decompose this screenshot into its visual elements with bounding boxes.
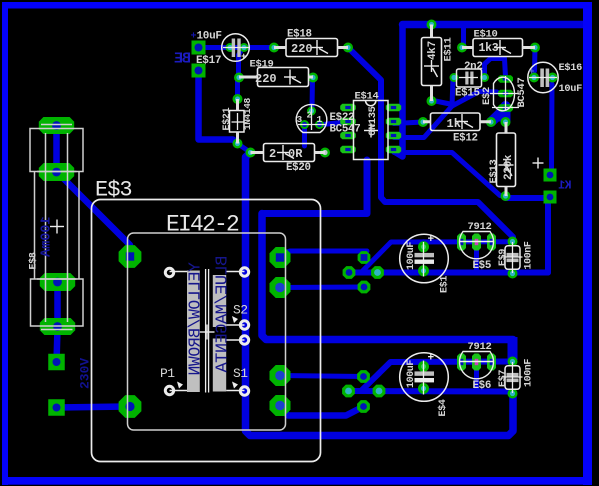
value 1k3 E$10 [479,42,499,55]
svg-text:BE: BE [174,51,191,68]
via pad B [343,266,356,279]
wire transformer pad1 rail into pad A [283,251,367,254]
capacitor E$4 pads [418,361,429,394]
relay pad K1-1 [544,169,557,182]
label E$12 [453,133,478,145]
resistor E$10 pads [457,43,540,53]
svg-text:E$4: E$4 [437,399,449,416]
via pad A [358,251,371,264]
wire E$15 right to E$2 top [485,59,506,78]
transformer inner outline [128,233,286,430]
label E$14 [355,90,379,102]
label E$5 [473,260,492,272]
label E$10 [474,28,498,40]
wire regulator rail into E$7 top [508,337,518,360]
wire E$21 to E$20 left pad [238,144,251,153]
label E$1 [439,276,451,293]
svg-text:0R: 0R [288,147,303,161]
value 100nF E$7 [524,359,535,387]
via pad C [371,266,384,279]
transformer pin S2b [240,336,248,344]
svg-text:E$2: E$2 [481,87,493,105]
svg-text:7912: 7912 [468,341,492,353]
svg-text:3: 3 [297,114,303,125]
transformer pad P1a [119,245,142,268]
resistor E$13 pads [501,117,511,201]
wire fuse bottom link [54,282,61,327]
via pad A2 [357,370,370,383]
resistor E$20 outline [251,144,326,162]
svg-text:P1: P1 [160,366,175,381]
wire left L-route down and across [262,214,513,340]
capacitor E$7 outline [503,362,523,393]
value 220 E$18 [291,42,313,56]
resistor E$12 pads [418,117,496,127]
wire fuse to mains terminal X1-1 [57,329,58,362]
wire transformer S to pad D [280,285,364,291]
value 220k E$13 [503,154,515,180]
transistor E$22 outline [296,104,327,132]
wire negative rail y272 [349,270,548,276]
transformer pin P2 [165,268,173,276]
wire E$2 bottom junction blob [491,106,506,122]
label BC547 E$2 [516,77,528,107]
wire transformer pad4 to pad D2 [280,406,364,416]
svg-text:1: 1 [317,114,323,125]
value 220 E$19 [255,72,277,86]
label E$20 [286,162,311,174]
svg-text:E$15: E$15 [455,88,480,100]
svg-text:E$8: E$8 [28,252,40,269]
capacitor E$9 pads [508,237,518,279]
wire fuse to transformer primary pad [57,172,130,257]
wire E$16 right down to K1 [549,84,555,169]
label E$2 [481,87,493,105]
wire top rail down to IC [396,25,403,157]
pad E$17 square 1 [192,41,206,55]
net label BE [174,51,191,68]
net label 230V [78,358,93,389]
svg-text:E$20: E$20 [286,162,311,174]
wire E$19 right to E$22 middle [310,78,316,109]
svg-text:100uF: 100uF [406,360,417,388]
svg-text:E$3: E$3 [95,178,132,203]
capacitor E$15 pads [450,73,490,82]
label E$6 [473,380,492,392]
transformer wire label 2 [214,256,233,374]
regulator E$5 pads [457,234,496,251]
capacitor E$15 outline [457,69,482,87]
resistor E$18 pads [269,43,353,53]
fuse holder E$8 pad 1 [39,117,74,134]
value 2n2 E$15 [464,61,483,73]
value 1N4148 E$21 [242,97,253,130]
label EI42-2 [166,212,239,238]
wire E$4 top pad stub [421,362,426,367]
wire top supply rail [403,21,589,29]
svg-text:1k3: 1k3 [479,42,499,55]
regulator E$5 outline [460,232,494,259]
wire diagonal to E$6 rail [361,362,513,392]
label E$13 [488,159,500,183]
svg-text:BLUE/MAGENTA: BLUE/MAGENTA [214,256,233,374]
capacitor E$9 outline [503,242,523,273]
label S1 [233,366,248,381]
pad E$17 square 2 [192,64,206,78]
resistor E$12 outline [423,113,491,131]
wire IC row3 to junction X [394,78,453,138]
wire 7912 E$6 middle down [474,362,479,391]
svg-text:7912: 7912 [468,221,492,233]
wire E$1 top pad stub [421,242,426,246]
transformer pin P1 [165,382,183,395]
diode E$21 outline [230,99,245,144]
svg-text:+: + [428,353,435,365]
regulator E$6 outline [460,352,494,379]
svg-text:6N135: 6N135 [367,106,379,136]
wire cap E$17 to E$19 left [239,49,243,78]
svg-text:E$7: E$7 [497,370,509,387]
relay pad K1-2 [544,191,557,204]
label E$17 [196,55,221,67]
wire E$11 bottom to junction X [433,101,450,105]
transformer pad S1b [270,277,291,298]
wire E$19 left to diode E$21 [235,78,240,100]
svg-text:E$10: E$10 [474,28,498,40]
transformer pin S2 [232,316,249,329]
resistor E$11 outline [422,25,442,102]
svg-text:2n2: 2n2 [464,61,483,73]
svg-text:+: + [428,234,435,246]
svg-text:K1: K1 [558,180,571,193]
svg-text:10uF: 10uF [559,83,583,95]
pin digits E$22 [297,110,323,126]
svg-text:S2: S2 [233,303,248,318]
svg-text:E$12: E$12 [453,133,478,145]
svg-text:2: 2 [269,147,276,161]
capacitor E$1 outline [400,234,449,283]
via pad C2 [373,385,386,398]
value 6N135 E$14 [367,106,379,136]
wire E$22 right to IC row2 [323,123,341,125]
wire rail IC pin5 to left L-route [263,160,367,214]
IC E$14 pads [340,104,401,154]
svg-text:E$21: E$21 [221,107,233,130]
net label K1 [558,180,571,193]
fuse holder E$8 pad 2 [39,163,74,181]
wire E$17 pad2 down to E$21 bottom [199,71,238,144]
svg-text:E$16: E$16 [559,62,583,74]
svg-text:+: + [529,67,534,77]
fuse holder E$8 pad 4 [40,318,75,335]
svg-text:BC547: BC547 [330,124,361,136]
wire diagonal to positive rail [361,242,513,273]
svg-text:E$1: E$1 [439,276,451,293]
wire transformer S2 to pad A2 [280,376,364,377]
terminal pad X1-1 [48,354,65,371]
wire E$13 bottom to relay K1 [506,195,549,201]
svg-text:100uF: 100uF [406,242,417,270]
label E$11 [443,37,455,61]
svg-text:E$13: E$13 [488,159,500,183]
svg-text:220k: 220k [503,154,515,180]
capacitor E$7 pads [508,357,518,399]
capacitor E$1 pads [418,241,429,276]
svg-text:E$19: E$19 [250,59,274,71]
transformer outline E$3 [92,200,321,462]
svg-text:EI42-2: EI42-2 [166,212,239,238]
resistor E$13 outline [497,122,516,196]
fuse holder E$8 outline [30,125,83,330]
label E$18 [287,29,312,41]
label E$22 [330,112,355,124]
transformer core [170,269,245,393]
svg-text:4k7: 4k7 [427,41,439,60]
label E$7 [497,370,509,387]
svg-text:E$11: E$11 [443,37,455,61]
capacitor E$17 outline [222,34,250,62]
svg-text:E$17: E$17 [196,55,221,67]
wire junction X to E$2 middle [452,92,497,107]
wire long ground rail left/bottom [246,153,514,436]
value 1k E$12 [447,117,461,131]
wire E$22 left stub [302,127,307,146]
IC E$14 outline [354,101,389,160]
resistor E$18 outline [274,39,348,57]
label +10uF E$17 [191,31,222,43]
svg-text:100mA: 100mA [40,216,55,257]
svg-text:YELLOW/BROWN: YELLOW/BROWN [186,262,205,375]
wire E$10 right down to E$16 [532,48,538,72]
wire E$10 left up to top rail [461,25,466,48]
transistor E$2 pads [498,75,513,112]
svg-text:E$18: E$18 [287,29,312,41]
wire 7912 E$5 middle down [474,242,479,273]
value 100nF E$9 [524,241,535,269]
net label 100mA [40,216,55,257]
resistor E$19 pads [234,73,318,83]
relay K1 mark [533,158,544,169]
transistor E$22 pads [300,107,324,130]
svg-text:S1: S1 [233,366,248,381]
transistor E$2 outline [490,76,519,111]
value 100uF E$1 [406,242,417,270]
transformer pad S1a [270,247,291,268]
transformer pad S2a [270,365,291,386]
svg-text:E$5: E$5 [473,260,492,272]
label E$3 [95,178,132,203]
via pad D2 [357,400,370,413]
transformer pad S2b [270,395,291,416]
value 220R E$20 [269,147,303,161]
wire E$18 right diagonal to IC rail to E$9 [348,48,513,242]
via pad D [358,281,371,294]
svg-text:E$14: E$14 [355,90,379,102]
svg-text:100nF: 100nF [524,241,535,269]
svg-text:E$22: E$22 [330,112,355,124]
regulator E$6 pads [457,354,496,371]
resistor E$19 outline [239,68,313,87]
transformer pad P1b [119,395,142,418]
wire mains terminal X1-2 to primary pad [57,407,131,408]
diode E$21 pads [233,94,243,149]
capacitor E$17 pads [226,43,249,52]
svg-text:10uF: 10uF [197,31,222,43]
label S2 [233,303,248,318]
resistor E$20 pads [246,148,331,158]
fuse holder E$8 pad 3 [40,273,75,291]
wire IC row4 diagonal to E$13 bottom [394,153,506,197]
svg-text:2: 2 [307,110,313,121]
svg-text:100nF: 100nF [524,359,535,387]
label BC547 E$22 [330,124,361,136]
label 7912 E$5 [468,221,492,233]
capacitor E$16 outline [528,62,558,92]
svg-text:220: 220 [291,42,313,56]
svg-text:230V: 230V [78,358,93,389]
value 4k7 E$11 [427,41,439,60]
label E$21 [221,107,233,130]
value 10uF E$16 [559,83,583,95]
wire node VCC rail E$17 to E$18 [199,45,275,50]
wire IC pin row2 to E$12 left [394,122,423,124]
wire K1 down to negative rail [545,198,551,273]
transformer wire label 1 [186,262,205,375]
value 100uF E$4 [406,360,417,388]
svg-text:E$6: E$6 [473,380,492,392]
svg-text:220: 220 [255,72,277,86]
svg-text:+: + [241,52,246,62]
terminal pad X1-2 [48,399,65,416]
label E$9 [497,249,509,266]
label E$15 [455,88,480,100]
capacitor E$4 outline [400,353,449,402]
label E$4 [437,399,449,416]
svg-text:E$9: E$9 [497,249,509,266]
capacitor E$16 pads [529,73,558,83]
resistor E$11 pads [427,20,437,107]
svg-text:1N4148: 1N4148 [242,97,253,130]
wire fuse top link [53,126,60,173]
svg-text:1k: 1k [447,117,461,131]
label E$16 [559,62,583,74]
wire rail E$4 bottom to E$7 bottom [349,391,513,394]
label E$19 [250,59,274,71]
svg-text:BC547: BC547 [516,77,528,107]
via pad B2 [342,385,355,398]
resistor E$10 outline [462,39,535,57]
transformer pin S1 [232,382,249,396]
label E$8 [28,252,40,269]
label P1 [160,366,175,381]
label 7912 E$6 [468,341,492,353]
transformer pin top right [240,268,248,276]
